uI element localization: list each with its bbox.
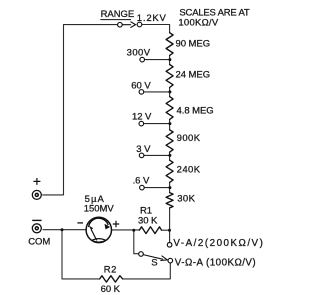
contact 300V: [140, 57, 145, 62]
wire 60V tap: [144, 91, 170, 93]
svg-text:.6 V: .6 V: [133, 176, 150, 187]
contact 60V: [139, 90, 144, 95]
resistor R2 60K horizontal: [100, 276, 123, 282]
node meter-R1 junction: [132, 229, 135, 232]
switch RANGE arm: [122, 22, 135, 28]
contact V-A/2: [167, 243, 172, 248]
terminal COM: [32, 220, 41, 232]
meter M 5uA 150MV: [77, 217, 119, 242]
node COM junction: [61, 228, 64, 231]
svg-text:100KΩ/V: 100KΩ/V: [178, 18, 218, 29]
label SCALES ARE AT 100K/V: [178, 8, 249, 29]
svg-text:30 K: 30 K: [138, 216, 158, 227]
wire 3V tap: [144, 154, 170, 156]
node 300V junction: [168, 58, 171, 61]
wire chain segment below 4.8MEG: [169, 119, 171, 129]
wire .6V tap: [144, 187, 169, 189]
wire chain segment below 900K: [169, 152, 171, 160]
node .6V junction: [168, 186, 171, 189]
switch RANGE wiper contact: [118, 22, 123, 27]
contact 1.2KV: [137, 22, 142, 27]
svg-text:30K: 30K: [177, 194, 195, 205]
contact .6V: [140, 185, 145, 190]
svg-text:150MV: 150MV: [84, 204, 115, 215]
svg-text:V-A/2(200KΩ/V): V-A/2(200KΩ/V): [173, 238, 264, 249]
svg-text:60 V: 60 V: [131, 81, 151, 92]
svg-text:4.8 MEG: 4.8 MEG: [177, 106, 214, 117]
wire R1 node down to V-A/2 contact: [169, 230, 171, 242]
resistor R1 30K horizontal: [139, 227, 161, 234]
switch S arm: [143, 255, 167, 261]
wire chain segment below 30K to R1 node: [169, 208, 171, 230]
wire bottom loop left: [62, 230, 100, 279]
resistor 90 MEG: [166, 33, 173, 56]
resistor 240K: [166, 160, 173, 182]
contact V-ohm-A: [168, 258, 173, 263]
wire top-left from + terminal up to RANGE wiper: [43, 25, 118, 195]
svg-text:24 MEG: 24 MEG: [176, 69, 211, 80]
wire 300V tap: [145, 59, 170, 61]
node 3V junction: [168, 154, 171, 157]
wire R1 to chain node: [162, 229, 170, 231]
wire chain segment below 90MEG: [169, 55, 171, 64]
resistor 24 MEG: [166, 65, 173, 88]
resistor 30K: [166, 193, 173, 208]
switch S wiper contact: [139, 252, 144, 257]
svg-text:240K: 240K: [177, 164, 201, 175]
wire chain segment below 24MEG: [169, 88, 171, 97]
contact 3V: [139, 153, 144, 158]
svg-text:12 V: 12 V: [132, 111, 152, 122]
svg-text:60 K: 60 K: [101, 284, 121, 295]
wire bottom loop right: [123, 263, 171, 279]
wire 12V tap: [144, 123, 170, 125]
svg-text:RANGE: RANGE: [101, 9, 135, 20]
contact 12V: [139, 121, 144, 126]
svg-text:COM: COM: [28, 237, 50, 248]
wire meter to R1: [112, 229, 140, 231]
svg-text:1.2KV: 1.2KV: [137, 13, 167, 24]
node 60V junction: [168, 90, 171, 93]
node 12V junction: [168, 122, 171, 125]
wire from 1.2KV contact to top of chain: [142, 25, 170, 33]
wire chain segment below 240K: [169, 182, 171, 192]
terminal +: [32, 178, 41, 199]
svg-text:300V: 300V: [127, 47, 151, 58]
svg-text:R2: R2: [104, 264, 117, 275]
wire meter node down to S wiper: [134, 230, 139, 254]
svg-text:90 MEG: 90 MEG: [176, 38, 211, 49]
resistor 900K: [166, 130, 173, 152]
resistor 4.8 MEG: [166, 97, 173, 120]
svg-text:S: S: [151, 257, 157, 268]
wire COM terminal to meter: [43, 229, 86, 231]
svg-text:3 V: 3 V: [136, 144, 151, 155]
label RANGE: [100, 9, 134, 20]
node chain-R1 junction: [168, 229, 171, 232]
svg-text:V-Ω-A (100KΩ/V): V-Ω-A (100KΩ/V): [175, 257, 256, 268]
svg-text:900K: 900K: [177, 133, 201, 144]
